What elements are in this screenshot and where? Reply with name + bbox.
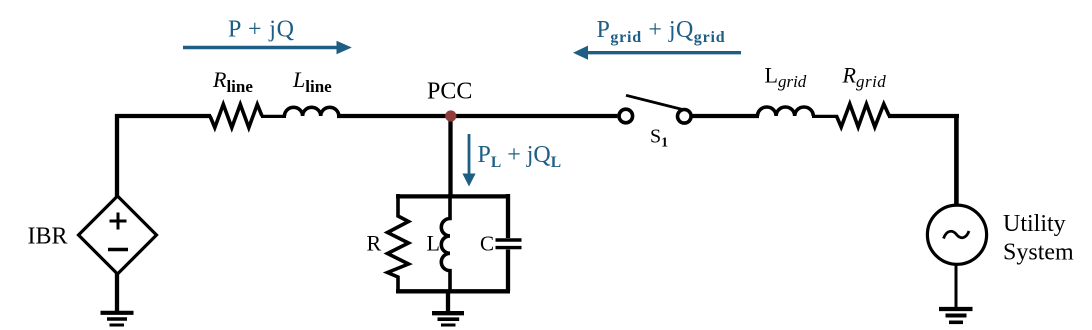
- svg-text:Lline: Lline: [292, 67, 332, 96]
- IBR plus sign: [110, 213, 127, 230]
- IBR minus sign: [108, 248, 128, 252]
- resistor R_grid: [837, 104, 890, 127]
- power flow arrow PL + jQL: [462, 134, 475, 187]
- svg-text:System: System: [1003, 240, 1074, 266]
- utility source sine tilde: [944, 231, 970, 239]
- capacitor C bottom lead: [506, 250, 510, 292]
- wire: left vertical from bus down to IBR source: [115, 114, 119, 197]
- switch S1 left contact: [619, 109, 633, 123]
- svg-text:S1: S1: [650, 126, 668, 151]
- svg-text:Lgrid: Lgrid: [765, 63, 807, 92]
- capacitor C plate 1: [496, 238, 522, 241]
- svg-text:PCC: PCC: [427, 79, 472, 105]
- ground: load: [432, 311, 464, 315]
- svg-text:L: L: [427, 231, 440, 256]
- svg-text:C: C: [480, 232, 494, 256]
- dependent source IBR diamond: [79, 196, 157, 274]
- resistor R (load branch): [388, 194, 409, 291]
- inductor L_grid: [758, 107, 814, 116]
- svg-text:P + jQ: P + jQ: [228, 17, 295, 43]
- power flow arrow P + jQ: [183, 41, 352, 54]
- wire: bus right segment from R_grid to corner: [888, 114, 959, 118]
- wire: right vertical from bus down to utility source: [954, 114, 959, 206]
- svg-text:PL + jQL: PL + jQL: [478, 142, 562, 171]
- wire: bus segment from L_line through PCC to switch: [337, 114, 617, 118]
- ground: IBR: [101, 311, 134, 315]
- svg-text:Rline: Rline: [212, 67, 253, 96]
- svg-text:Utility: Utility: [1003, 211, 1066, 237]
- inductor L_line: [285, 107, 339, 116]
- source: utility system AC circle: [927, 205, 986, 264]
- wire: utility source down to ground: [955, 264, 958, 309]
- switch S1 blade: [626, 95, 685, 110]
- svg-text:IBR: IBR: [28, 224, 68, 250]
- wire: bus segment between R_line and L_line: [261, 115, 286, 118]
- capacitor C (load branch) top lead: [506, 194, 510, 238]
- wire: load network bottom bar: [396, 289, 510, 293]
- wire: IBR source down to ground: [115, 272, 119, 311]
- svg-text:Rgrid: Rgrid: [842, 63, 887, 92]
- ground: utility: [939, 307, 973, 311]
- svg-text:Pgrid + jQgrid: Pgrid + jQgrid: [597, 17, 726, 46]
- svg-text:R: R: [367, 230, 382, 255]
- wire: PCC node down to load network top bar: [448, 116, 452, 198]
- resistor R_line: [210, 104, 262, 127]
- wire: load bottom stem to ground: [446, 290, 450, 312]
- wire: bus segment from switch to L_grid: [692, 114, 760, 118]
- wire: bus segment between L_grid and R_grid: [812, 115, 838, 118]
- wire: load network top bar: [396, 194, 510, 198]
- inductor L (load branch): [441, 194, 450, 291]
- node PCC junction dot: [445, 110, 456, 121]
- wire: bus left segment from corner to R_line: [115, 114, 211, 118]
- power flow arrow Pgrid + jQgrid: [573, 46, 741, 60]
- switch S1 right contact: [678, 110, 692, 124]
- capacitor C plate 2: [496, 246, 522, 249]
